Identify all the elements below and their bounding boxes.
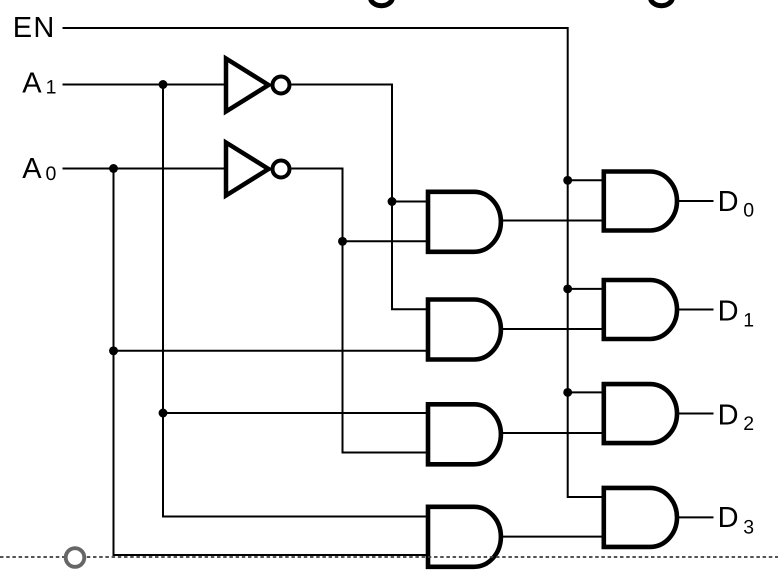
wire A1 input to inverter <box>63 84 227 86</box>
AND gate G2 (A1'·A0) <box>428 300 501 360</box>
inverter N2 (A0) <box>226 143 290 196</box>
svg-text:3: 3 <box>743 517 754 539</box>
wire G2 output to U6 input <box>503 328 602 330</box>
junction dot EN at D1 <box>563 284 572 293</box>
wire D3 output stub <box>679 516 714 518</box>
junction dot EN at D2 <box>563 388 572 397</box>
wire A0 input to inverter <box>63 168 227 170</box>
AND gate U8 output D3 <box>604 488 677 547</box>
svg-text:D: D <box>718 502 739 534</box>
AND gate G4 (A1·A0) <box>428 507 501 567</box>
wire A1' from inverter N1 output to gate U2 (G2 top) <box>292 85 427 310</box>
AND gate U6 output D1 <box>604 280 677 339</box>
wire A1 vertical trunk to gate U4 (G4 top) <box>163 85 426 517</box>
junction dot A1' at G1 top <box>388 197 397 206</box>
junction dot A0 branch <box>109 346 118 355</box>
AND gate G3 (A1·A0') <box>428 404 501 464</box>
svg-text:0: 0 <box>46 163 57 185</box>
junction dot EN at D0 <box>563 176 572 185</box>
wire A1' branch to gate U1 (G1 top) <box>392 201 426 203</box>
svg-text:D: D <box>718 186 739 218</box>
slide handle circle <box>66 548 85 567</box>
wire G3 output to U7 input <box>503 432 602 434</box>
svg-text:1: 1 <box>743 310 754 332</box>
svg-text:D: D <box>718 400 739 432</box>
wire A0 vertical trunk to gate U4 (G4 bottom) <box>114 169 427 556</box>
wire EN branch to gate U6 (D1) <box>568 288 603 290</box>
wire EN branch to gate U5 (D0) <box>568 179 603 181</box>
AND gate U5 output D0 <box>604 172 677 231</box>
slide boundary dashed line <box>0 556 778 558</box>
wire D0 output stub <box>679 200 714 202</box>
junction dot A1 wire <box>159 80 168 89</box>
wire A1 branch to gate U3 (G3 top) <box>163 412 426 414</box>
wire A0 branch to gate U2 (G2 bottom) <box>114 350 427 352</box>
wire EN branch to gate U7 (D2) <box>568 391 603 393</box>
svg-text:2: 2 <box>743 413 754 435</box>
wire G4 output to U8 (D3 gate) input <box>503 536 602 538</box>
AND gate G1 (A1'·A0') <box>428 192 501 252</box>
inverter N1 (A1) <box>226 59 290 112</box>
svg-text:1: 1 <box>46 77 57 99</box>
cropped title letter g (descender loop 1) <box>370 0 392 6</box>
wire EN horizontal and vertical trunk <box>63 28 604 497</box>
svg-text:A: A <box>22 153 42 185</box>
wire D1 output stub <box>679 309 714 311</box>
svg-text:D: D <box>718 295 739 327</box>
wire D2 output stub <box>679 413 714 415</box>
wire G1 output to U5 input <box>503 220 602 222</box>
svg-text:A: A <box>22 68 42 100</box>
junction dot A0 wire <box>109 164 118 173</box>
svg-text:0: 0 <box>743 200 754 222</box>
svg-text:EN: EN <box>13 12 56 44</box>
junction dot A0' at G1 bottom <box>338 237 347 246</box>
junction dot A1 branch <box>159 409 168 418</box>
wire A0' from inverter N2 output to gate U3 (G3 bottom) <box>292 169 427 453</box>
wire A0' branch to gate U1 (G1 bottom) <box>343 240 427 242</box>
AND gate U7 output D2 <box>604 384 677 443</box>
cropped title letter g (descender loop 2) <box>650 0 672 6</box>
